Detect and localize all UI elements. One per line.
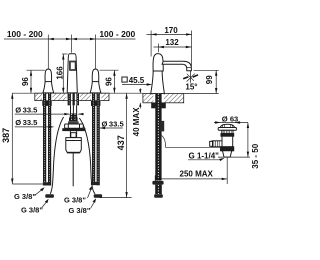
svg-text:166: 166 — [55, 66, 64, 80]
svg-text:100 - 200: 100 - 200 — [99, 29, 135, 39]
svg-text:15°: 15° — [185, 83, 197, 92]
svg-text:G 3/8": G 3/8" — [64, 195, 86, 204]
svg-text:437: 437 — [116, 135, 126, 150]
svg-text:100 - 200: 100 - 200 — [7, 29, 43, 39]
svg-text:Ø 33.5: Ø 33.5 — [15, 105, 38, 114]
svg-text:170: 170 — [164, 26, 178, 35]
svg-text:96: 96 — [105, 77, 114, 86]
svg-text:99: 99 — [205, 75, 214, 84]
svg-text:35 - 50: 35 - 50 — [251, 143, 260, 168]
svg-text:96: 96 — [21, 77, 30, 86]
svg-text:250 MAX: 250 MAX — [180, 169, 214, 178]
svg-text:G 1-1/4": G 1-1/4" — [189, 151, 220, 160]
svg-text:Ø 33.5: Ø 33.5 — [102, 119, 125, 128]
svg-text:45.5: 45.5 — [129, 76, 145, 85]
svg-text:387: 387 — [1, 128, 11, 143]
svg-text:40 MAX: 40 MAX — [132, 107, 141, 137]
svg-text:G 3/8": G 3/8" — [14, 192, 36, 201]
svg-text:Ø 33.5: Ø 33.5 — [15, 118, 38, 127]
svg-text:132: 132 — [165, 38, 179, 47]
svg-text:G 3/8": G 3/8" — [21, 205, 43, 214]
svg-text:G 3/8": G 3/8" — [69, 206, 91, 215]
